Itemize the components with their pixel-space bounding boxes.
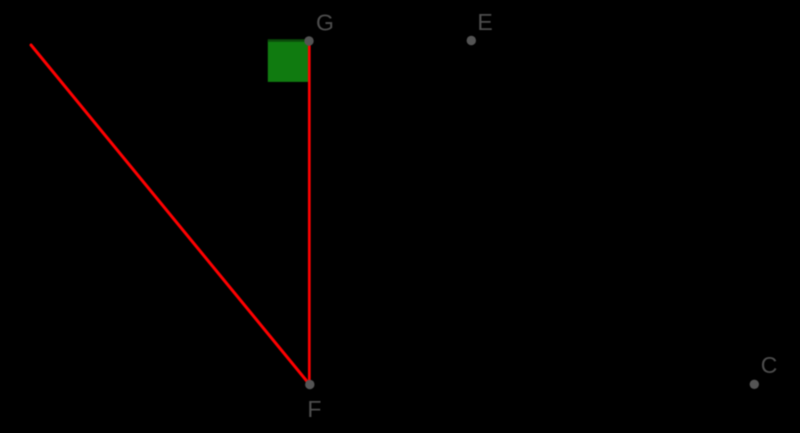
svg-text:E: E (477, 9, 492, 35)
node E (467, 9, 493, 45)
svg-text:F: F (307, 396, 321, 422)
node C (750, 352, 778, 389)
wire: red segment F to G (vertical) (308, 41, 311, 385)
svg-text:G: G (316, 10, 334, 36)
wire: red segment from upper-left to F (31, 45, 310, 385)
svg-text:C: C (761, 352, 778, 378)
node F (305, 380, 321, 422)
right-angle marker at G (green square) (268, 39, 311, 82)
node G (304, 10, 334, 46)
